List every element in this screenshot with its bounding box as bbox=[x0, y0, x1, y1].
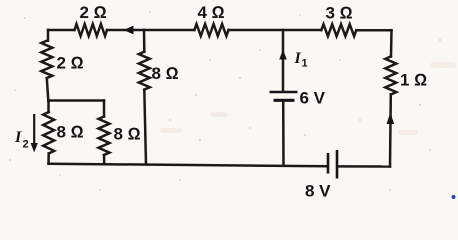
svg-text:I: I bbox=[294, 50, 302, 67]
wire battery branch lower bbox=[282, 102, 285, 166]
wire right rail lower bbox=[389, 95, 392, 167]
wire top rail middle segment bbox=[107, 29, 194, 32]
svg-text:8 Ω: 8 Ω bbox=[114, 125, 141, 144]
svg-text:2 Ω: 2 Ω bbox=[80, 3, 107, 22]
svg-text:2: 2 bbox=[23, 139, 29, 151]
resistor 1ohm vertical bbox=[385, 57, 396, 95]
svg-text:2 Ω: 2 Ω bbox=[57, 54, 84, 73]
resistor 8ohm middle vertical bbox=[139, 52, 150, 90]
battery cell 8V plates bbox=[328, 150, 337, 179]
wire 8ohm-B bottom stub bbox=[103, 155, 106, 164]
wire right rail bbox=[390, 30, 393, 56]
wire bottom rail right of 8V battery bbox=[339, 165, 391, 168]
resistor 2ohm horizontal bbox=[75, 24, 108, 36]
wire 8ohm-A top stub bbox=[47, 101, 50, 113]
wire middle branch top stub bbox=[143, 30, 146, 52]
resistor 4ohm horizontal bbox=[194, 24, 228, 36]
svg-text:8 Ω: 8 Ω bbox=[57, 123, 84, 142]
wire middle branch lower bbox=[144, 90, 146, 165]
svg-text:8 Ω: 8 Ω bbox=[152, 64, 179, 83]
svg-text:I: I bbox=[14, 129, 22, 146]
scan speckles bbox=[9, 11, 441, 191]
resistor 2ohm vertical bbox=[41, 41, 52, 78]
wire 8ohm-A bottom stub bbox=[47, 154, 50, 164]
wire top rail segment to 3ohm bbox=[229, 29, 322, 32]
wire left rail upper bbox=[47, 30, 50, 41]
resistor 8ohm A vertical bbox=[43, 112, 54, 154]
svg-text:1: 1 bbox=[302, 58, 308, 70]
wire bottom rail left of 8V battery bbox=[49, 164, 327, 167]
wire 8ohm-B top stub bbox=[103, 101, 106, 117]
arrowhead on top rail pointing left bbox=[124, 26, 134, 35]
blue ink dot bottom right bbox=[452, 195, 456, 199]
wire left rail middle bbox=[47, 78, 49, 100]
faint bleed-through marks bbox=[160, 62, 456, 135]
wire battery branch upper bbox=[282, 30, 285, 91]
svg-text:4 Ω: 4 Ω bbox=[198, 3, 225, 22]
arrowhead I1 up on battery branch bbox=[279, 50, 287, 60]
svg-text:3 Ω: 3 Ω bbox=[326, 4, 353, 23]
wire top rail right segment bbox=[356, 29, 391, 32]
resistor 8ohm B vertical bbox=[99, 117, 110, 156]
wire top rail left segment bbox=[48, 29, 75, 32]
svg-text:1 Ω: 1 Ω bbox=[400, 71, 427, 90]
svg-text:6 V: 6 V bbox=[300, 89, 326, 108]
battery cell 6V plates bbox=[270, 92, 298, 100]
arrowhead up on right rail bbox=[387, 113, 395, 125]
svg-text:8 V: 8 V bbox=[305, 182, 331, 201]
current arrow I2 bbox=[31, 114, 38, 153]
resistor 3ohm horizontal bbox=[321, 24, 356, 36]
wire parallel-branch top bbox=[48, 99, 104, 102]
